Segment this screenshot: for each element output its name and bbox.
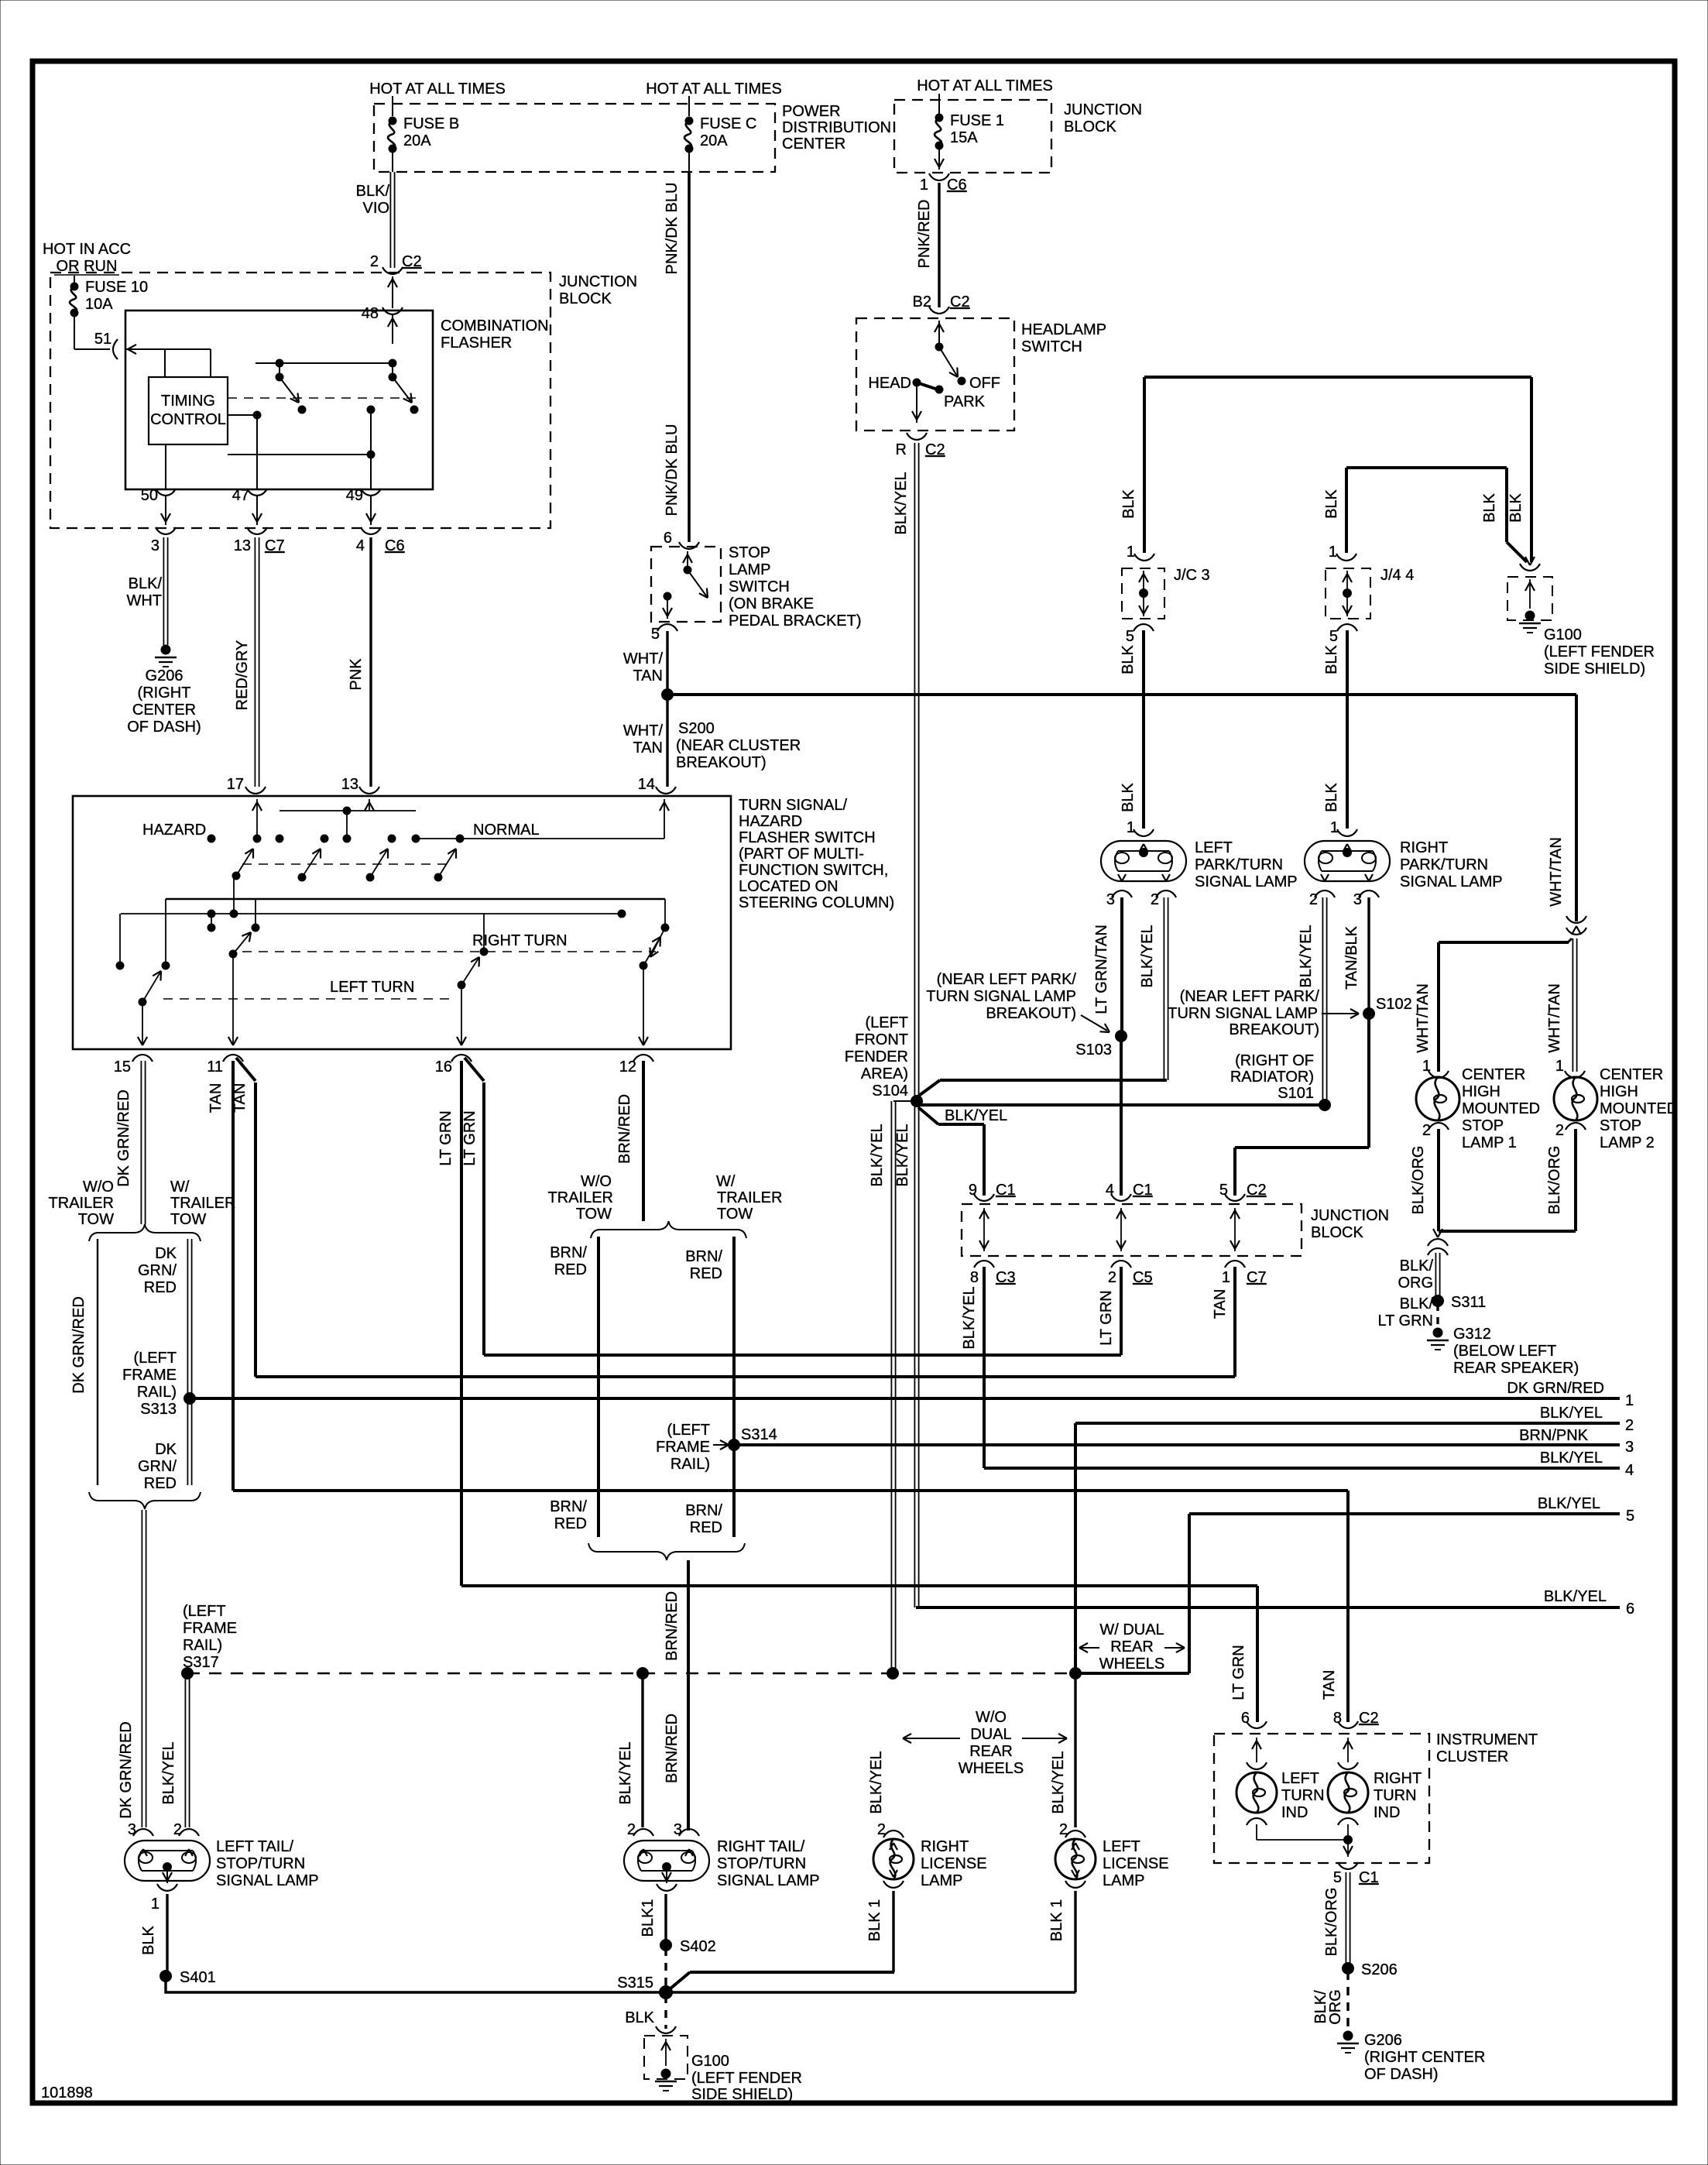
svg-text:G206: G206 [1364, 2032, 1402, 2049]
left tail/stop/turn signal lamp [125, 1841, 210, 1881]
svg-text:RED: RED [690, 1265, 722, 1282]
svg-text:BLK/YEL: BLK/YEL [945, 1107, 1007, 1124]
svg-text:HEADLAMP: HEADLAMP [1021, 321, 1106, 338]
svg-text:RIGHT TAIL/: RIGHT TAIL/ [717, 1838, 805, 1855]
svg-text:TURN SIGNAL LAMP: TURN SIGNAL LAMP [926, 988, 1076, 1005]
turn signal/hazard flasher switch box [73, 796, 731, 1049]
svg-text:BLK/: BLK/ [356, 183, 390, 200]
svg-text:LOCATED ON: LOCATED ON [739, 878, 839, 895]
svg-text:WHT/: WHT/ [623, 722, 664, 739]
svg-text:(LEFT: (LEFT [133, 1350, 177, 1367]
fuse B 20A [392, 96, 393, 116]
svg-text:15A: 15A [950, 129, 978, 146]
svg-text:PARK/TURN: PARK/TURN [1195, 856, 1283, 873]
ground G100 left fender side shield (top) [1507, 577, 1552, 620]
svg-text:TURN SIGNAL/: TURN SIGNAL/ [739, 797, 847, 814]
svg-text:3: 3 [151, 537, 159, 554]
svg-text:RED: RED [690, 1519, 722, 1536]
svg-text:FUSE C: FUSE C [700, 115, 756, 132]
wire WHT/TAN S200 to turn signal switch pin 14 [666, 695, 668, 787]
svg-text:PNK/RED: PNK/RED [916, 200, 933, 269]
stop lamp switch dashed box [651, 547, 721, 622]
svg-text:BREAKOUT): BREAKOUT) [1229, 1021, 1319, 1038]
wire BLK right license lamp pin 1 [892, 1891, 894, 1972]
svg-text:BLK/: BLK/ [129, 575, 163, 592]
svg-text:PARK/TURN: PARK/TURN [1400, 856, 1488, 873]
svg-text:BLK/ORG: BLK/ORG [1546, 1146, 1563, 1215]
wire 4 BLK/YEL junction pin 8 to right edge [984, 1467, 1620, 1470]
svg-text:REAR: REAR [969, 1743, 1013, 1760]
svg-text:C3: C3 [996, 1269, 1016, 1286]
svg-text:2: 2 [1625, 1417, 1634, 1434]
svg-text:(LEFT FENDER: (LEFT FENDER [691, 2070, 802, 2087]
wire DK GRN/RED pin 15 down [140, 1061, 142, 1224]
svg-text:BLOCK: BLOCK [1064, 118, 1116, 136]
svg-text:FENDER: FENDER [845, 1048, 908, 1065]
svg-text:FLASHER SWITCH: FLASHER SWITCH [739, 829, 876, 846]
svg-text:TRAILER: TRAILER [170, 1195, 235, 1212]
splice S315 [659, 1985, 673, 1999]
svg-text:BLK/YEL: BLK/YEL [617, 1741, 634, 1804]
svg-text:WHT/TAN: WHT/TAN [1415, 983, 1432, 1053]
svg-text:BLK1: BLK1 [640, 1899, 657, 1937]
wire BLK/YEL S104 down to wire 6 [914, 1107, 915, 1607]
svg-text:LEFT TURN: LEFT TURN [330, 979, 414, 996]
wire LT GRN run to junction pin 2 C5 [484, 1354, 1121, 1357]
svg-text:S206: S206 [1361, 1961, 1398, 1978]
svg-text:15: 15 [114, 1058, 131, 1076]
svg-text:1: 1 [1127, 819, 1135, 836]
splice S311 [1432, 1295, 1444, 1307]
wire BLK left license lamp pin 1 [1074, 1891, 1076, 1992]
svg-text:W/: W/ [170, 1179, 190, 1196]
svg-text:DK: DK [155, 1441, 177, 1458]
svg-text:S401: S401 [180, 1969, 216, 1986]
inline connector BLK/ORG [1433, 1229, 1438, 1237]
wire BLK/VIO from fuse B to junction block C2 [392, 153, 393, 172]
svg-text:2: 2 [370, 253, 379, 270]
svg-text:BLK/YEL: BLK/YEL [1298, 925, 1315, 987]
svg-text:WHT: WHT [126, 592, 162, 609]
svg-text:ORG: ORG [1398, 1275, 1433, 1292]
svg-text:BLK/ORG: BLK/ORG [1323, 1888, 1340, 1957]
svg-text:BLK/YEL: BLK/YEL [893, 472, 910, 534]
svg-text:HOT AT ALL TIMES: HOT AT ALL TIMES [917, 77, 1053, 94]
junction connector J/4 4 [1326, 568, 1370, 619]
svg-text:BLK: BLK [1120, 489, 1137, 518]
wire BLK to J/4 4 [1345, 468, 1348, 553]
svg-text:C2: C2 [1359, 1710, 1379, 1727]
svg-text:LICENSE: LICENSE [1103, 1855, 1169, 1872]
svg-text:GRN/: GRN/ [138, 1458, 177, 1475]
wire BLK/YEL S104 down to right license lamp [890, 1101, 892, 1673]
svg-text:R: R [896, 441, 907, 458]
svg-text:HAZARD: HAZARD [142, 822, 206, 839]
wire TAN run to junction pin 1 C7 [256, 1375, 1235, 1378]
svg-text:C7: C7 [265, 537, 285, 554]
svg-text:3: 3 [1353, 891, 1362, 908]
svg-text:DUAL: DUAL [970, 1726, 1011, 1743]
svg-text:LT GRN: LT GRN [461, 1110, 478, 1166]
headlamp switch dashed box [856, 318, 1014, 431]
svg-text:W/O: W/O [581, 1173, 612, 1190]
left turn indicator lamp [1256, 1738, 1257, 1762]
wire TAN pin 11 down [232, 1061, 235, 1491]
node right license lamp tap [887, 1667, 899, 1680]
svg-text:POWER: POWER [782, 103, 841, 120]
svg-text:JUNCTION: JUNCTION [559, 273, 637, 290]
wire BLK/YEL axle tap to left license lamp [1074, 1676, 1076, 1827]
svg-text:COMBINATION: COMBINATION [441, 317, 549, 335]
svg-text:BRN/: BRN/ [550, 1244, 587, 1261]
brace join DK GRN/RED [89, 1492, 201, 1509]
svg-text:3: 3 [1625, 1439, 1634, 1456]
svg-text:STOP: STOP [1462, 1117, 1504, 1134]
svg-text:(RIGHT CENTER: (RIGHT CENTER [1364, 2049, 1485, 2066]
wire WHT/TAN to stop lamp 1 [1567, 938, 1572, 943]
combination flasher box [125, 311, 433, 489]
svg-text:BLK/YEL: BLK/YEL [1538, 1495, 1600, 1512]
svg-text:10A: 10A [85, 296, 113, 313]
wire WHT/TAN to stop lamp 2 [1572, 938, 1573, 1072]
center high mounted stop lamp 1 [1416, 1077, 1459, 1120]
ground G206 right center of dash [161, 645, 171, 655]
svg-text:BLK: BLK [1481, 492, 1498, 522]
svg-text:11: 11 [207, 1058, 223, 1076]
svg-text:(ON BRAKE: (ON BRAKE [729, 595, 814, 612]
svg-text:GRN/: GRN/ [138, 1262, 177, 1279]
svg-text:HOT AT ALL TIMES: HOT AT ALL TIMES [646, 81, 782, 98]
wire TAN junction pin 1 down [1233, 1267, 1236, 1377]
wire TAN/BLK right park lamp pin 3 to S102 [1367, 897, 1370, 1014]
right turn indicator lamp [1347, 1738, 1349, 1762]
svg-text:2: 2 [173, 1821, 182, 1838]
wire BLK/YEL left park lamp pin 2 down [1163, 897, 1164, 1080]
svg-text:HEAD: HEAD [868, 375, 911, 392]
svg-text:S104: S104 [872, 1082, 908, 1100]
svg-text:(RIGHT: (RIGHT [138, 684, 191, 702]
wire LT GRN pin 16 down [460, 1061, 463, 1586]
svg-text:W/O: W/O [976, 1709, 1007, 1726]
svg-text:51: 51 [94, 331, 111, 348]
svg-text:RIGHT TURN: RIGHT TURN [472, 932, 568, 949]
svg-text:S402: S402 [680, 1938, 716, 1955]
wire LT GRN pin 16 branch [465, 1058, 484, 1081]
svg-text:NORMAL: NORMAL [473, 822, 540, 839]
brace join BRN/RED [588, 1543, 745, 1560]
svg-text:REAR SPEAKER): REAR SPEAKER) [1453, 1360, 1579, 1377]
svg-text:FUSE B: FUSE B [403, 115, 459, 132]
ground G206 right center of dash [1343, 2031, 1353, 2041]
svg-text:20A: 20A [403, 132, 431, 149]
fuse C 20A [688, 96, 690, 116]
svg-text:8: 8 [970, 1269, 979, 1286]
timing control box [149, 377, 228, 444]
svg-text:STOP: STOP [729, 544, 770, 561]
svg-text:BLK 1: BLK 1 [866, 1899, 883, 1941]
svg-text:FUSE 10: FUSE 10 [85, 279, 148, 296]
svg-text:CENTER: CENTER [132, 702, 196, 719]
svg-text:DK GRN/RED: DK GRN/RED [115, 1089, 132, 1187]
svg-text:S311: S311 [1451, 1294, 1486, 1311]
svg-text:BLK/: BLK/ [1400, 1295, 1434, 1312]
power distribution center box [374, 104, 775, 172]
wire BRN/RED w/o trailer tow [597, 1237, 600, 1537]
svg-text:TRAILER: TRAILER [717, 1189, 782, 1206]
svg-text:LT GRN: LT GRN [1230, 1645, 1247, 1700]
cluster pin 5 C1 [1338, 1862, 1358, 1869]
svg-text:HIGH: HIGH [1600, 1083, 1638, 1100]
svg-text:LAMP 2: LAMP 2 [1600, 1134, 1655, 1151]
svg-text:(NEAR LEFT PARK/: (NEAR LEFT PARK/ [937, 971, 1077, 988]
svg-text:SIGNAL LAMP: SIGNAL LAMP [216, 1872, 319, 1889]
svg-text:BLK/ORG: BLK/ORG [1410, 1146, 1427, 1215]
svg-text:PARK: PARK [944, 393, 986, 410]
wire BLK/LT GRN S311 to G312 [1436, 1304, 1439, 1326]
svg-text:CONTROL: CONTROL [150, 411, 226, 428]
svg-text:BLK/YEL: BLK/YEL [1050, 1751, 1067, 1813]
wire BLK J/4 4 to right park lamp [1346, 630, 1349, 829]
svg-text:OFF: OFF [969, 375, 1000, 392]
svg-text:20A: 20A [700, 132, 728, 149]
dashed wire BLK/YEL w/o dual rear wheels [187, 1673, 1075, 1675]
svg-text:TAN: TAN [207, 1083, 225, 1113]
wire BLK/YEL axle tap to right tail lamp [641, 1676, 643, 1827]
svg-text:RIGHT: RIGHT [921, 1838, 969, 1855]
svg-text:C1: C1 [1359, 1869, 1379, 1886]
svg-text:RED: RED [554, 1515, 587, 1532]
svg-text:3: 3 [674, 1821, 682, 1838]
svg-text:OR RUN: OR RUN [57, 258, 118, 275]
svg-text:LT GRN/TAN: LT GRN/TAN [1093, 925, 1110, 1014]
svg-text:LAMP: LAMP [729, 561, 770, 578]
wire LT GRN junction pin 2 down [1120, 1267, 1123, 1355]
svg-text:W/: W/ [716, 1173, 736, 1190]
stop lamp switch internals [687, 551, 688, 567]
svg-text:2: 2 [1309, 891, 1318, 908]
svg-text:2: 2 [1422, 1122, 1431, 1139]
flasher internal wiring [138, 348, 211, 350]
svg-text:BLK: BLK [1507, 492, 1525, 522]
svg-text:S103: S103 [1075, 1041, 1112, 1058]
svg-text:S314: S314 [741, 1426, 777, 1443]
wire DK GRN/RED to left tail lamp [141, 1510, 142, 1827]
svg-text:LAMP: LAMP [1103, 1872, 1144, 1889]
splice S401 [159, 1970, 172, 1982]
svg-text:G312: G312 [1453, 1326, 1491, 1343]
svg-text:TOW: TOW [78, 1211, 114, 1228]
svg-text:BLK/YEL: BLK/YEL [868, 1751, 885, 1813]
svg-text:1: 1 [1625, 1392, 1634, 1409]
svg-text:SIDE SHIELD): SIDE SHIELD) [691, 2086, 793, 2103]
svg-text:C5: C5 [1133, 1269, 1153, 1286]
svg-text:1: 1 [1222, 1269, 1230, 1286]
svg-text:BLK: BLK [1120, 644, 1137, 674]
wire LT GRN/TAN left park lamp pin 3 to S103 [1120, 897, 1123, 1036]
svg-text:14: 14 [638, 776, 655, 793]
svg-text:HAZARD: HAZARD [739, 813, 802, 830]
svg-text:1: 1 [920, 177, 928, 194]
svg-text:TIMING: TIMING [161, 393, 215, 410]
svg-text:BRN/: BRN/ [685, 1248, 722, 1265]
wire PNK flasher to turn signal switch pin 13 [369, 537, 372, 787]
svg-text:2: 2 [877, 1821, 886, 1838]
svg-text:TAN: TAN [633, 667, 663, 684]
svg-text:CENTER: CENTER [1600, 1066, 1663, 1083]
svg-text:(NEAR CLUSTER: (NEAR CLUSTER [676, 737, 801, 754]
svg-text:STOP/TURN: STOP/TURN [216, 1855, 305, 1872]
svg-text:BLK/: BLK/ [1400, 1257, 1434, 1275]
wire BLK/YEL headlamp switch to S104 [914, 443, 915, 1096]
wire PNK/RED to headlamp switch B2 [938, 183, 940, 307]
svg-text:G100: G100 [1544, 626, 1582, 643]
svg-text:C2: C2 [402, 253, 422, 270]
svg-text:LEFT: LEFT [1195, 839, 1233, 856]
wire BLK/YEL right park lamp pin 2 to S101 [1322, 897, 1323, 1105]
junction block middle dashed box [962, 1204, 1302, 1256]
svg-text:BLK: BLK [1323, 489, 1340, 518]
svg-text:TRAILER: TRAILER [49, 1195, 114, 1212]
svg-text:1: 1 [1127, 544, 1135, 561]
wire 2 BLK/YEL to right edge [1075, 1422, 1620, 1425]
wire WHT/TAN down right side [1575, 695, 1578, 921]
wire BLK/YEL branch S104 to left park lamp [917, 1080, 940, 1097]
wire BLK/YEL S317 to left tail lamp [184, 1676, 186, 1827]
svg-text:BRN/RED: BRN/RED [664, 1714, 681, 1783]
svg-text:ORG: ORG [1327, 1989, 1344, 2025]
wire BLK/ORG cluster to S206 [1345, 1872, 1346, 1967]
svg-text:BLK/YEL: BLK/YEL [869, 1124, 886, 1186]
svg-text:101898: 101898 [41, 2084, 93, 2102]
svg-text:FUSE 1: FUSE 1 [950, 112, 1004, 129]
svg-text:BLK/YEL: BLK/YEL [1544, 1588, 1607, 1605]
left tail lamp pin 1 [166, 1869, 168, 1883]
svg-text:FRAME: FRAME [656, 1439, 710, 1456]
svg-text:RED: RED [144, 1475, 177, 1492]
svg-text:LT GRN: LT GRN [1098, 1290, 1115, 1346]
brace split BRN/RED [591, 1221, 746, 1238]
svg-text:BLK: BLK [1120, 782, 1137, 811]
svg-text:6: 6 [664, 530, 672, 547]
svg-text:BLK: BLK [1323, 644, 1340, 674]
svg-text:AREA): AREA) [861, 1065, 908, 1082]
svg-text:S102: S102 [1376, 996, 1412, 1013]
svg-text:RAIL): RAIL) [183, 1637, 222, 1654]
svg-text:DK GRN/RED: DK GRN/RED [70, 1296, 87, 1394]
wire DK GRN/RED w/o trailer tow [97, 1239, 98, 1485]
wire BLK J/C 3 to left park lamp [1142, 630, 1145, 829]
wire TAN S102 to junction block pin 5 C2 [1367, 1014, 1370, 1148]
svg-text:BREAKOUT): BREAKOUT) [986, 1005, 1076, 1022]
wire BLK to J/C 3 [1143, 377, 1146, 553]
svg-text:B2: B2 [913, 293, 931, 311]
svg-text:C6: C6 [947, 177, 967, 194]
svg-text:WHT/: WHT/ [623, 650, 664, 667]
wire TAN run to instrument cluster pin 8 [233, 1489, 1348, 1492]
wire BLK bus upper horizontal [1144, 376, 1531, 379]
svg-text:LICENSE: LICENSE [921, 1855, 987, 1872]
flasher pin 50 [165, 444, 166, 489]
svg-text:FUNCTION SWITCH,: FUNCTION SWITCH, [739, 862, 888, 879]
svg-text:BLK: BLK [1323, 782, 1340, 811]
flasher pin 49 [370, 455, 372, 489]
wire BLK/YEL S104 branch left [893, 1100, 917, 1102]
svg-text:3: 3 [1106, 891, 1115, 908]
svg-text:WHT/TAN: WHT/TAN [1548, 837, 1565, 907]
svg-text:1: 1 [1555, 1058, 1564, 1075]
junction block (left) dashed box [50, 273, 550, 528]
wire S315 to license lamps [666, 1972, 690, 1992]
svg-text:C1: C1 [1133, 1182, 1153, 1199]
svg-text:LT GRN: LT GRN [1378, 1312, 1434, 1330]
right tail/stop/turn signal lamp [624, 1841, 709, 1881]
cluster internal ground wires [1256, 1824, 1257, 1840]
svg-text:MOUNTED: MOUNTED [1462, 1100, 1540, 1117]
wire LT GRN S103 to junction block pin 4 C1 [1120, 1036, 1123, 1196]
svg-text:S200: S200 [678, 720, 715, 737]
svg-text:13: 13 [234, 537, 251, 554]
wire TAN pin 11 branch [236, 1058, 256, 1081]
svg-text:STOP/TURN: STOP/TURN [717, 1855, 806, 1872]
svg-text:HOT AT ALL TIMES: HOT AT ALL TIMES [369, 81, 506, 98]
wire WHT/TAN S200 to right side [667, 693, 1576, 696]
svg-text:SIGNAL LAMP: SIGNAL LAMP [717, 1872, 820, 1889]
wire BLK/YEL S104 to junction block pin 9 C1 [918, 1107, 938, 1124]
splice S402 [660, 1939, 672, 1951]
svg-text:WHT/TAN: WHT/TAN [1546, 983, 1563, 1053]
svg-text:BLK/YEL: BLK/YEL [1540, 1450, 1603, 1467]
stop lamp switch pin 5 [657, 624, 677, 631]
ground G312 below left rear speaker [1433, 1328, 1443, 1338]
wires BLK/ORG stop lamps join [1437, 1129, 1440, 1231]
wire 3 BRN/PNK S314 to right edge [734, 1443, 1620, 1446]
svg-text:TAN: TAN [232, 1083, 249, 1113]
svg-text:4: 4 [356, 537, 365, 554]
wire LT GRN run to instrument cluster pin 6 [461, 1584, 1257, 1587]
wire BLK left tail lamp to S401 [166, 1894, 168, 1976]
svg-text:(RIGHT OF: (RIGHT OF [1235, 1052, 1314, 1069]
svg-text:BLK/YEL: BLK/YEL [961, 1286, 978, 1349]
ground G100 left fender side shield (bottom) [644, 2036, 688, 2079]
svg-text:FRAME: FRAME [183, 1620, 237, 1637]
svg-text:DISTRIBUTION: DISTRIBUTION [782, 119, 891, 136]
splice S200 near cluster breakout [661, 688, 674, 701]
wire BLK S402 to S315 [664, 1948, 667, 1990]
svg-text:FRONT: FRONT [855, 1031, 908, 1048]
svg-text:BREAKOUT): BREAKOUT) [676, 754, 767, 771]
svg-text:(LEFT: (LEFT [667, 1422, 710, 1439]
right tail lamp pin 1 [666, 1869, 667, 1883]
wire fuse 10 to flasher pin 51 [74, 317, 75, 349]
svg-text:LAMP 1: LAMP 1 [1462, 1134, 1517, 1151]
svg-text:3: 3 [128, 1821, 136, 1838]
wire pin 2 C2 to combination flasher pin 48 [392, 276, 393, 308]
svg-text:1: 1 [1330, 819, 1339, 836]
svg-text:MOUNTED: MOUNTED [1600, 1100, 1678, 1117]
svg-text:(LEFT: (LEFT [183, 1603, 226, 1620]
svg-text:TAN: TAN [1321, 1670, 1338, 1700]
junction block pins 3 / 13 C7 / 4 C6 [156, 527, 176, 534]
svg-text:C2: C2 [1247, 1182, 1267, 1199]
svg-text:VIO: VIO [363, 200, 389, 217]
wire BLK/YEL junction pin 8 down [983, 1267, 986, 1468]
svg-text:2: 2 [1151, 891, 1159, 908]
svg-text:JUNCTION: JUNCTION [1311, 1207, 1389, 1224]
svg-text:(LEFT FENDER: (LEFT FENDER [1544, 643, 1655, 660]
svg-text:BRN/: BRN/ [550, 1498, 587, 1515]
wire BLK S401 to S315 run [166, 1976, 1075, 1992]
svg-text:TURN: TURN [1374, 1787, 1417, 1804]
